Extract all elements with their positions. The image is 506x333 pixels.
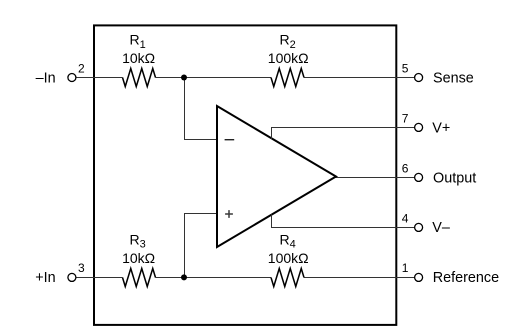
svg-text:Reference: Reference (433, 270, 499, 286)
svg-text:6: 6 (402, 162, 409, 176)
svg-text:100kΩ: 100kΩ (268, 250, 309, 266)
svg-text:–In: –In (36, 70, 56, 86)
svg-text:1: 1 (402, 261, 409, 275)
svg-text:V+: V+ (432, 120, 450, 136)
svg-text:+In: +In (35, 270, 55, 286)
svg-text:Sense: Sense (433, 70, 474, 86)
svg-text:3: 3 (78, 261, 85, 275)
svg-text:V–: V– (432, 220, 450, 236)
svg-text:Output: Output (433, 170, 476, 186)
svg-text:10kΩ: 10kΩ (122, 250, 155, 266)
svg-text:4: 4 (402, 212, 409, 226)
svg-text:7: 7 (402, 112, 409, 126)
svg-text:10kΩ: 10kΩ (122, 50, 155, 66)
svg-text:100kΩ: 100kΩ (268, 50, 309, 66)
svg-text:5: 5 (402, 62, 409, 76)
svg-text:2: 2 (78, 62, 85, 76)
